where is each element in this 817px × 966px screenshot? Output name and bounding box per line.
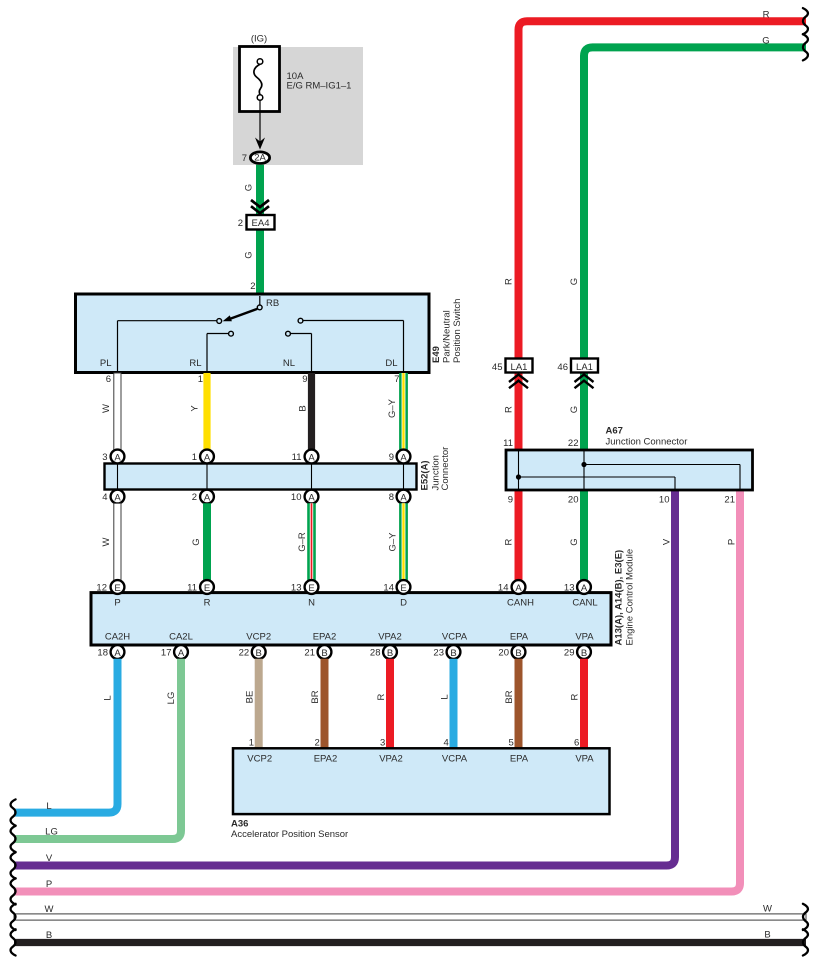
wire BE ECM pin22 to A36 pin1 [255,659,263,749]
switch E49 box [76,294,430,373]
label G [762,36,769,47]
wire break L [11,799,16,825]
wire G from 2A to E49 pin 2 [256,165,264,297]
svg-text:A: A [308,492,315,503]
E52 component label [420,447,452,491]
label W [45,904,54,915]
E52 bottom pin terminals [102,490,410,504]
svg-text:VCP2: VCP2 [247,754,272,765]
ECM top pin terminals [96,580,590,594]
label G [569,406,580,413]
sensor A36 box [233,748,610,814]
junction connector A67 box [506,450,753,490]
wire G A67 pin20 to ECM CANL [580,450,588,581]
A67 pin numbers [503,438,735,506]
svg-text:VPA: VPA [575,754,594,765]
svg-text:L: L [46,801,51,812]
svg-text:A: A [114,648,121,659]
svg-text:G: G [569,538,580,545]
wire G from top right to 46 LA1 [584,47,806,358]
wire W bottom bus [14,914,806,920]
wire fuse output [255,100,265,149]
ECM component label [614,549,636,646]
label W [763,904,772,915]
svg-text:Junction Connector: Junction Connector [606,436,688,447]
wire R ECM pin28 to A36 pin3 [386,659,394,749]
svg-text:E49: E49 [431,346,442,363]
svg-text:LG: LG [45,827,58,838]
label G [191,538,202,545]
svg-text:A: A [581,583,588,594]
svg-text:6: 6 [574,738,579,749]
svg-text:10: 10 [291,492,302,503]
svg-text:R: R [504,406,515,413]
wire break B right [803,929,808,955]
label B [46,930,52,941]
E49 pin numbers [106,374,400,385]
A67 component label [606,426,688,448]
svg-text:NL: NL [283,358,295,369]
svg-text:G: G [244,251,255,258]
svg-text:2: 2 [315,738,320,749]
svg-text:VCP2: VCP2 [246,632,271,643]
svg-text:A: A [114,492,121,503]
label P [46,879,52,890]
label R [504,406,515,413]
svg-text:3: 3 [102,452,107,463]
svg-text:22: 22 [568,438,579,449]
E49 internal node RB [257,296,279,310]
svg-text:P: P [727,539,738,545]
label LG [166,692,177,705]
svg-text:G–Y: G–Y [388,532,399,552]
svg-text:R: R [376,693,387,700]
svg-text:LA1: LA1 [576,362,593,373]
wire P A67 pin21 to bottom bus [14,489,740,892]
svg-text:A36: A36 [231,819,248,830]
svg-text:V: V [662,538,673,545]
svg-text:1: 1 [192,452,197,463]
svg-text:A: A [400,492,407,503]
svg-text:CANH: CANH [507,598,534,609]
wire break P [11,878,16,904]
wire break R top [803,8,808,34]
svg-text:E: E [308,583,314,594]
wire W E52 pin4 to ECM pin12 [114,503,121,580]
wire G-Y E52 pin8 to ECM pin14 [399,503,408,580]
wire L ECM pin23 to A36 pin4 [450,659,458,749]
svg-text:1: 1 [198,374,203,385]
svg-text:E: E [204,583,210,594]
ECM A13(A), A14(B), E3(E) box [91,593,611,645]
svg-text:8: 8 [389,492,394,503]
wire L ECM pin18 to bottom bus [14,659,118,813]
wire G LA1 to A67 pin 22 [580,372,588,450]
label LG [45,827,58,838]
svg-text:21: 21 [724,495,735,506]
svg-text:7: 7 [242,153,247,164]
label R [504,538,515,545]
label G [244,251,255,258]
svg-text:D: D [400,598,407,609]
connector 2 EA4 [238,215,275,230]
wire break W [11,904,16,930]
svg-text:B: B [581,648,587,659]
svg-text:VPA2: VPA2 [378,632,402,643]
label W [101,537,112,546]
label R [376,693,387,700]
svg-text:VPA: VPA [575,632,594,643]
wire G E52 pin2 to ECM pin11 [203,503,211,580]
svg-text:VCPA: VCPA [442,632,468,643]
svg-text:Connector: Connector [440,447,451,491]
wire G-R E52 pin10 to ECM pin13 [307,503,316,580]
label Y [190,405,201,412]
svg-text:Accelerator Position Sensor: Accelerator Position Sensor [231,829,348,840]
svg-text:13: 13 [291,582,302,593]
svg-text:10: 10 [659,495,670,506]
svg-text:DL: DL [385,358,397,369]
wire break W right [803,904,808,930]
wire R ECM pin29 to A36 pin6 [580,659,588,749]
svg-text:PL: PL [100,358,112,369]
wire B bottom bus [14,939,806,946]
svg-text:14: 14 [383,582,394,593]
wire R from top right to 45 LA1 [519,21,807,358]
svg-text:CA2H: CA2H [105,632,130,643]
svg-text:1: 1 [249,738,254,749]
E49 contact NL rail [286,331,312,371]
wire BR ECM pin21 to A36 pin2 [321,659,329,749]
label G-R [297,532,308,552]
svg-text:2: 2 [250,281,255,292]
svg-text:R: R [570,693,581,700]
wire R A67 pin9 to ECM CANH [515,450,523,581]
svg-text:23: 23 [433,647,444,658]
svg-text:9: 9 [389,452,394,463]
svg-text:A67: A67 [606,426,623,437]
svg-text:20: 20 [568,495,579,506]
svg-text:EPA: EPA [510,632,529,643]
svg-text:B: B [387,648,393,659]
svg-text:A: A [515,583,522,594]
svg-text:A: A [114,452,121,463]
E49 switch arm to PL contact [118,309,258,371]
svg-text:Position Switch: Position Switch [452,299,463,363]
E49 contact DL rail [298,318,403,371]
svg-text:P: P [114,598,120,609]
svg-text:VCPA: VCPA [442,754,468,765]
svg-text:G–Y: G–Y [387,398,398,418]
svg-text:12: 12 [96,582,107,593]
connector pin 7 (2A) [242,152,270,164]
svg-text:BE: BE [245,691,256,704]
svg-text:EPA: EPA [510,754,529,765]
fuse block shading [233,47,363,165]
svg-text:B: B [46,930,52,941]
svg-text:A: A [400,452,407,463]
ECM bottom pin terminals [97,645,590,659]
svg-text:E52(A): E52(A) [420,460,431,490]
svg-text:EA4: EA4 [252,218,270,229]
svg-text:LG: LG [166,692,177,705]
svg-text:A13(A), A14(B), E3(E): A13(A), A14(B), E3(E) [614,550,625,646]
svg-text:CA2L: CA2L [169,632,193,643]
wire break LG [11,826,16,852]
svg-text:R: R [504,538,515,545]
svg-text:28: 28 [370,647,381,658]
label R [763,10,770,21]
label L [46,801,51,812]
svg-text:W: W [763,904,772,915]
svg-text:9: 9 [302,374,307,385]
svg-text:L: L [440,694,451,699]
svg-text:G: G [569,278,580,285]
svg-text:B: B [321,648,327,659]
svg-text:E/G RM–IG1–1: E/G RM–IG1–1 [287,81,352,92]
svg-text:6: 6 [106,374,111,385]
svg-text:R: R [504,278,515,285]
svg-text:B: B [298,405,309,411]
svg-text:R: R [204,598,211,609]
svg-text:A: A [178,648,185,659]
svg-text:N: N [308,598,315,609]
svg-text:17: 17 [161,647,172,658]
label R [570,693,581,700]
svg-text:18: 18 [97,647,108,658]
svg-text:BR: BR [310,690,321,703]
splice chevrons into EA4 [251,200,269,213]
svg-text:3: 3 [380,738,385,749]
svg-text:2: 2 [192,492,197,503]
wire B E49 pin9 to E52 pin11 [308,373,315,451]
wire R LA1 to A67 pin 11 [515,372,523,450]
svg-text:14: 14 [498,582,509,593]
svg-text:RB: RB [266,298,279,309]
svg-text:RL: RL [189,358,201,369]
svg-text:R: R [763,10,770,21]
label (IG) [251,34,267,45]
label BR [504,690,515,703]
wire break V [11,852,16,878]
label B [298,405,309,411]
label W [101,404,112,413]
svg-text:E: E [400,583,406,594]
svg-text:LA1: LA1 [511,362,528,373]
wire W E49 pin6 to E52 pin3 [114,373,121,451]
svg-text:EPA2: EPA2 [313,632,337,643]
svg-text:45: 45 [492,362,503,373]
label B [764,930,770,941]
svg-text:G–R: G–R [297,532,308,552]
svg-text:Park/Neutral: Park/Neutral [442,310,453,363]
svg-text:V: V [46,853,53,864]
pin 2 of E49 [250,281,255,292]
ECM top port labels [114,598,597,609]
svg-text:2: 2 [238,218,243,229]
svg-text:P: P [46,879,52,890]
svg-text:5: 5 [509,738,514,749]
svg-text:VPA2: VPA2 [379,754,403,765]
svg-text:G: G [244,184,255,191]
connector 45 LA1 [492,359,533,389]
label L [440,694,451,699]
svg-text:29: 29 [564,647,575,658]
svg-text:EPA2: EPA2 [314,754,338,765]
A36 component label [231,819,348,841]
svg-text:W: W [45,904,54,915]
svg-text:7: 7 [394,374,399,385]
svg-text:20: 20 [498,647,509,658]
label R [504,278,515,285]
svg-text:11: 11 [292,452,302,463]
svg-text:9: 9 [508,495,513,506]
label G [569,278,580,285]
wire G-Y E49 pin7 to E52 pin9 [399,373,408,451]
label G [244,184,255,191]
fuse F 10A E/G RM-IG1-1 [240,47,352,112]
label V [662,538,673,545]
wire LG ECM pin17 to bottom bus [14,659,181,839]
label G-Y [387,398,398,418]
wire break B [11,929,16,955]
svg-text:E: E [114,583,120,594]
E52 top pin terminals [102,450,410,464]
label V [46,853,53,864]
svg-text:L: L [103,695,114,700]
svg-text:A: A [204,492,211,503]
svg-text:4: 4 [102,492,107,503]
svg-text:CANL: CANL [572,598,597,609]
E49 component label [431,299,463,363]
svg-text:Y: Y [190,405,201,412]
svg-text:22: 22 [239,647,250,658]
svg-text:4: 4 [444,738,449,749]
svg-text:B: B [764,930,770,941]
wire Y E49 pin1 to E52 pin1 [203,373,210,451]
svg-text:11: 11 [503,438,513,449]
svg-text:(IG): (IG) [251,34,267,45]
svg-text:A: A [204,452,211,463]
svg-text:G: G [569,406,580,413]
svg-text:W: W [101,537,112,546]
svg-text:G: G [191,538,202,545]
svg-text:BR: BR [504,690,515,703]
A36 port labels [247,754,594,765]
svg-text:46: 46 [557,362,568,373]
svg-text:13: 13 [564,582,575,593]
label G-Y [388,532,399,552]
wire V A67 pin10 to bottom bus [14,489,675,866]
svg-text:A: A [308,452,315,463]
svg-text:21: 21 [304,647,315,658]
svg-text:W: W [101,404,112,413]
label G [569,538,580,545]
ECM bottom port labels [105,632,594,643]
junction connector E52(A) box [105,464,417,490]
label BE [245,691,256,704]
A36 pin numbers [249,738,580,749]
E49 contact RL rail [207,331,233,371]
svg-text:B: B [256,648,262,659]
svg-text:G: G [762,36,769,47]
E49 port labels [100,358,398,369]
svg-text:B: B [515,648,521,659]
svg-text:B: B [450,648,456,659]
connector 46 LA1 [557,359,598,389]
label BR [310,690,321,703]
wire BR ECM pin20 to A36 pin5 [515,659,523,749]
svg-text:2A: 2A [254,153,266,164]
wire break G top [803,34,808,60]
label L [103,695,114,700]
svg-text:Engine Control Module: Engine Control Module [624,549,635,646]
label P [727,539,738,545]
svg-text:11: 11 [187,582,197,593]
